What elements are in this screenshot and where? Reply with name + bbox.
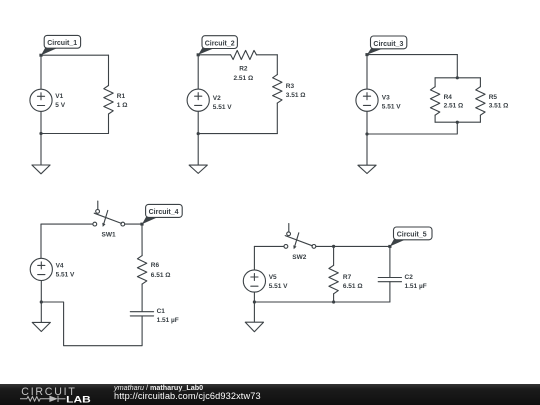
svg-text:1 Ω: 1 Ω (117, 102, 128, 109)
svg-text:3.51 Ω: 3.51 Ω (489, 102, 509, 109)
ground C5 (245, 302, 263, 332)
capacitor C2 (378, 246, 427, 302)
ground C3 (358, 134, 376, 174)
wire left upper C3 (366, 55, 368, 90)
logo CIRCUIT LAB (0, 384, 110, 405)
svg-text:Circuit_4: Circuit_4 (149, 209, 179, 216)
wire bottom return C4 (41, 302, 142, 346)
svg-text:Circuit_3: Circuit_3 (373, 41, 403, 48)
wire right drop C3 (456, 55, 458, 78)
junction dot bottom bus C3 (456, 121, 459, 124)
svg-text:C2: C2 (405, 274, 414, 281)
wire bottom C5 (254, 301, 390, 303)
svg-text:3.51 Ω: 3.51 Ω (286, 92, 306, 99)
wire left upper C1 (40, 55, 42, 89)
resistor R7 (329, 246, 363, 302)
svg-text:R5: R5 (489, 94, 498, 101)
resistor R5 (476, 78, 509, 122)
svg-text:5.51 V: 5.51 V (213, 104, 232, 111)
svg-text:SW2: SW2 (292, 254, 306, 261)
junction dot V5 (253, 300, 256, 303)
junction dot bottom R7 (332, 300, 335, 303)
wire left lower C3 (366, 111, 368, 134)
voltage source V2 (187, 89, 232, 111)
wire top-right C2 (257, 54, 278, 56)
resistor R1 (104, 55, 128, 133)
svg-text:SW1: SW1 (102, 231, 116, 238)
svg-text:V1: V1 (55, 93, 63, 100)
ground C2 (189, 134, 207, 174)
svg-text:R3: R3 (286, 83, 295, 90)
wire left lower C5 (253, 292, 255, 302)
svg-text:V5: V5 (269, 274, 277, 281)
junction dot top R7 (332, 245, 335, 248)
wire left upper C2 (197, 55, 199, 89)
wire top bus C3 (435, 77, 480, 79)
wire bottom right C3 (367, 122, 457, 134)
resistor R2 (231, 50, 257, 81)
svg-text:R1: R1 (117, 93, 126, 100)
svg-text:5.51 V: 5.51 V (382, 104, 401, 111)
switch SW2 (284, 224, 316, 261)
resistor R4 (430, 78, 463, 122)
wire left lower C2 (197, 111, 199, 133)
svg-text:C1: C1 (157, 308, 166, 315)
ground C1 (32, 134, 50, 174)
svg-text:6.51 Ω: 6.51 Ω (343, 283, 363, 290)
svg-text:R2: R2 (239, 65, 248, 72)
wire bottom C1 (41, 133, 109, 135)
svg-text:1.51 µF: 1.51 µF (405, 283, 427, 290)
label Circuit_1 (39, 35, 80, 56)
switch SW1 (93, 201, 125, 238)
footer bar (0, 384, 540, 405)
wire top-right C5 (316, 245, 390, 247)
junction dot C3 (365, 132, 368, 135)
wire left lower C1 (40, 111, 42, 133)
capacitor C1 (130, 308, 179, 324)
voltage source V4 (30, 258, 75, 280)
wire top C1 (41, 54, 109, 56)
svg-text:2.51 Ω: 2.51 Ω (234, 75, 254, 82)
wire left upper C4 (40, 224, 42, 258)
junction dot C4 (40, 300, 43, 303)
wire top C3 (367, 54, 457, 56)
wire bottom C2 (198, 133, 277, 135)
voltage source V1 (30, 89, 66, 111)
svg-text:R4: R4 (444, 94, 453, 101)
label Circuit_5 (388, 227, 432, 248)
svg-text:Circuit_5: Circuit_5 (397, 232, 427, 239)
svg-text:V4: V4 (56, 263, 64, 270)
svg-text:5.51 V: 5.51 V (56, 271, 75, 278)
svg-text:R7: R7 (343, 274, 352, 281)
svg-text:R6: R6 (151, 262, 160, 269)
wire top-left C5 (254, 245, 284, 247)
svg-text:LAB: LAB (66, 394, 91, 404)
wire top-left C4 (41, 223, 93, 225)
junction dot top bus C3 (456, 76, 459, 79)
svg-text:1.51 µF: 1.51 µF (157, 317, 179, 324)
svg-text:2.51 Ω: 2.51 Ω (444, 102, 464, 109)
ground C4 (32, 302, 50, 332)
resistor R6 (137, 224, 170, 311)
wire left C5 (253, 246, 255, 270)
label Circuit_2 (197, 36, 238, 57)
wire left lower C4 (40, 281, 42, 303)
voltage source V3 (356, 89, 401, 111)
wire bottom bus C3 (435, 121, 480, 123)
wire top-right C4 (125, 223, 142, 225)
svg-text:Circuit_2: Circuit_2 (205, 41, 235, 48)
label Circuit_3 (365, 36, 406, 56)
svg-text:5 V: 5 V (55, 102, 65, 109)
label Circuit_4 (140, 204, 182, 225)
wire top-left C2 (198, 54, 230, 56)
svg-text:6.51 Ω: 6.51 Ω (151, 272, 171, 279)
junction dot C2 (197, 132, 200, 135)
svg-text:V3: V3 (382, 95, 390, 102)
voltage source V5 (243, 270, 288, 292)
svg-text:5.51 V: 5.51 V (269, 283, 288, 290)
resistor R3 (273, 55, 306, 134)
svg-text:V2: V2 (213, 95, 221, 102)
svg-text:Circuit_1: Circuit_1 (47, 40, 77, 47)
junction dot C1 (39, 132, 42, 135)
